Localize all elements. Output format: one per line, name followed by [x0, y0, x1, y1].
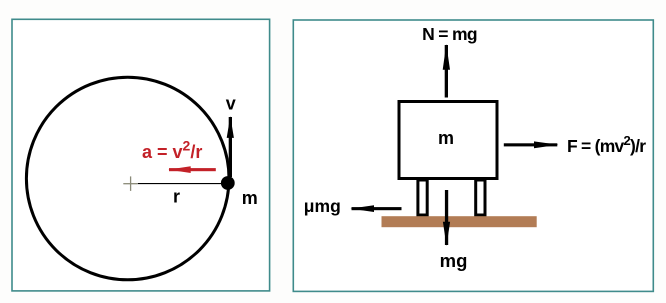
left leg of block [418, 180, 427, 215]
normal force arrow N (pointing up) [443, 44, 450, 98]
svg-text:r: r [173, 187, 180, 207]
svg-text:N = mg: N = mg [422, 24, 477, 44]
svg-text:a = v2/r: a = v2/r [142, 137, 202, 162]
mass dot m [221, 176, 235, 190]
weight arrow mg (pointing down) [443, 190, 450, 246]
left panel border [12, 19, 270, 291]
svg-text:m: m [242, 188, 258, 208]
velocity arrow v [227, 116, 234, 177]
right leg of block [476, 180, 485, 215]
center cross [123, 176, 137, 191]
svg-text:v: v [226, 93, 236, 113]
radius line r [138, 183, 223, 185]
svg-text:F = (mv2)/r: F = (mv2)/r [567, 133, 646, 156]
svg-text:m: m [438, 128, 454, 148]
block (mass m) [399, 102, 497, 179]
right panel border [293, 20, 653, 291]
red acceleration arrow (pointing left) [168, 166, 216, 173]
svg-text:mg: mg [440, 250, 468, 271]
circle (circular path) [26, 77, 229, 280]
svg-text:μmg: μmg [304, 196, 341, 216]
centripetal force arrow F (pointing right) [504, 141, 559, 148]
brown surface [382, 216, 537, 227]
friction arrow (pointing left) [350, 205, 401, 212]
